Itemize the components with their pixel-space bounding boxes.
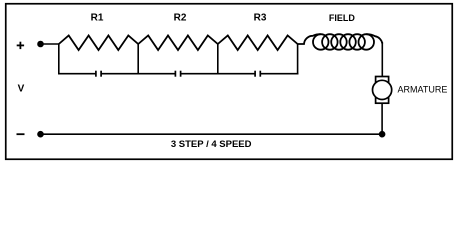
node minus terminal dot	[37, 131, 44, 138]
wire tap vertical at R3 right	[297, 44, 299, 75]
contact 2 (shorts R2)	[137, 71, 218, 77]
wire tap vertical at R1 left	[58, 44, 60, 75]
wire coil to armature	[381, 42, 383, 77]
label R1	[91, 13, 104, 24]
wire armature to bottom rail	[381, 103, 383, 134]
wire bottom rail	[41, 133, 383, 135]
svg-text:V: V	[18, 84, 25, 95]
svg-text:ARMATURE: ARMATURE	[398, 85, 448, 95]
svg-text:3 STEP / 4 SPEED: 3 STEP / 4 SPEED	[171, 139, 252, 150]
label minus terminal	[17, 133, 25, 135]
svg-text:FIELD: FIELD	[329, 13, 355, 23]
label FIELD	[329, 13, 355, 23]
wire tap vertical at R2/R3 junction	[217, 44, 219, 75]
motor armature M1	[373, 77, 392, 104]
resistor R1	[59, 36, 138, 51]
label R3	[254, 13, 267, 24]
wire plus terminal to R1	[41, 43, 59, 45]
wire tap vertical at R1/R2 junction	[137, 44, 139, 75]
svg-text:R2: R2	[174, 13, 187, 24]
node armature bottom junction dot	[379, 131, 386, 138]
svg-text:R3: R3	[254, 13, 267, 24]
label ARMATURE	[398, 85, 448, 95]
node plus terminal dot	[37, 41, 44, 48]
label R2	[174, 13, 187, 24]
label 3 STEP / 4 SPEED	[171, 139, 252, 150]
label V supply	[18, 84, 25, 95]
label plus terminal	[17, 42, 24, 49]
inductor FIELD coil	[298, 34, 383, 50]
contact 3 (shorts R3)	[217, 71, 298, 77]
resistor R2	[138, 36, 218, 51]
svg-text:R1: R1	[91, 13, 104, 24]
contact 1 (shorts R1)	[58, 71, 139, 77]
resistor R3	[218, 36, 298, 51]
